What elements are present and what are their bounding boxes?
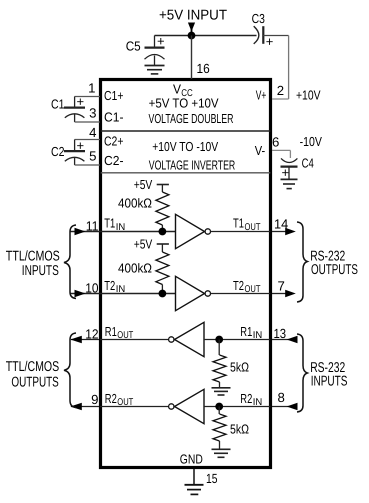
svg-text:R2: R2 — [240, 391, 252, 406]
+5V input arrow — [188, 23, 195, 32]
arrow into pin 10 — [75, 290, 86, 298]
capacitor C1 — [64, 97, 85, 123]
svg-text:1: 1 — [88, 81, 95, 96]
node T2 input — [159, 290, 167, 298]
brace RS-232 inputs — [297, 334, 307, 412]
svg-text:OUT: OUT — [245, 222, 261, 233]
ground below C4 — [281, 179, 298, 188]
wire pin 15 — [193, 469, 195, 485]
svg-text:T1: T1 — [104, 216, 115, 231]
ground below R2 5k — [212, 449, 231, 457]
svg-text:16: 16 — [197, 61, 210, 76]
svg-text:R1: R1 — [240, 324, 252, 339]
svg-text:+: + — [157, 34, 165, 49]
svg-text:C5: C5 — [126, 39, 141, 54]
receiver R1 buffer — [169, 337, 174, 342]
svg-text:15: 15 — [206, 471, 218, 486]
svg-text:5kΩ: 5kΩ — [230, 421, 249, 436]
svg-text:C4: C4 — [302, 155, 314, 170]
wire pin 6 — [272, 149, 290, 151]
svg-text:TTL/CMOS: TTL/CMOS — [6, 359, 60, 375]
svg-text:+5V: +5V — [134, 177, 153, 192]
svg-text:C2+: C2+ — [104, 133, 124, 148]
svg-text:IN: IN — [253, 330, 262, 341]
svg-text:T2: T2 — [104, 278, 115, 293]
svg-text:7: 7 — [278, 278, 285, 293]
node T1 input — [159, 228, 167, 236]
svg-text:400kΩ: 400kΩ — [118, 195, 152, 210]
wire pin 14 out — [272, 231, 288, 233]
svg-text:VOLTAGE INVERTER: VOLTAGE INVERTER — [149, 158, 236, 173]
svg-text:5: 5 — [89, 148, 96, 163]
wire T1 output — [211, 231, 271, 233]
svg-text:V: V — [173, 82, 181, 97]
wire T2 output — [211, 293, 271, 295]
svg-text:+: + — [282, 165, 290, 180]
driver T2 buffer — [176, 276, 205, 310]
svg-text:9: 9 — [91, 392, 98, 407]
svg-text:6: 6 — [272, 134, 279, 149]
wire pin 2 — [272, 98, 289, 100]
svg-text:INPUTS: INPUTS — [311, 373, 348, 389]
ground below R1 5k — [212, 388, 231, 395]
chip U1 (MAX232) box — [101, 80, 271, 468]
svg-text:2: 2 — [277, 83, 284, 98]
svg-text:OUTPUTS: OUTPUTS — [11, 374, 58, 390]
wire top rail left — [155, 35, 192, 37]
svg-text:+5V: +5V — [134, 236, 153, 251]
wire pin 13 — [272, 339, 297, 341]
svg-text:8: 8 — [278, 390, 285, 405]
svg-text:R1: R1 — [105, 324, 117, 339]
capacitor C2 — [64, 140, 85, 166]
svg-text:T1: T1 — [233, 216, 244, 231]
wire C3 to corner — [263, 35, 288, 37]
svg-text:+: + — [266, 34, 274, 49]
wire T2 input row — [71, 293, 176, 295]
resistor 5k (R2) — [218, 407, 220, 415]
svg-text:3: 3 — [89, 106, 96, 121]
svg-text:C1: C1 — [51, 97, 65, 112]
wire top rail right to C3 — [192, 35, 257, 37]
node R2 input — [215, 403, 223, 411]
wire pin 16 — [191, 36, 193, 80]
svg-text:+5V TO +10V: +5V TO +10V — [149, 95, 219, 110]
svg-text:5kΩ: 5kΩ — [230, 359, 249, 374]
capacitor C3 — [254, 26, 264, 44]
node R1 input — [215, 336, 223, 344]
divider between doubler and inverter sections — [101, 130, 271, 132]
divider below inverter section — [101, 172, 271, 174]
svg-text:INPUTS: INPUTS — [22, 263, 59, 279]
resistor 400k (T1) — [156, 192, 169, 225]
svg-text:+10V: +10V — [296, 88, 321, 103]
svg-text:+5V INPUT: +5V INPUT — [159, 8, 227, 24]
resistor 400k (T2) — [156, 252, 169, 285]
svg-text:+: + — [77, 138, 85, 153]
svg-text:C1-: C1- — [104, 109, 124, 124]
driver T1 buffer — [176, 214, 205, 248]
svg-text:4: 4 — [89, 125, 96, 140]
svg-text:C1+: C1+ — [104, 88, 124, 103]
svg-text:V+: V+ — [256, 88, 267, 103]
wire corner down to pin 2 — [288, 36, 290, 100]
wire R1 output row — [71, 339, 99, 341]
receiver R2 buffer — [169, 404, 174, 409]
svg-text:+10V TO -10V: +10V TO -10V — [152, 139, 218, 154]
svg-text:OUT: OUT — [245, 284, 261, 295]
svg-text:+: + — [77, 94, 85, 109]
svg-text:VOLTAGE DOUBLER: VOLTAGE DOUBLER — [149, 111, 234, 126]
svg-text:R2: R2 — [105, 391, 117, 406]
svg-text:C2: C2 — [51, 144, 65, 159]
svg-text:C3: C3 — [252, 11, 265, 26]
wire pin 7 out — [272, 293, 288, 295]
svg-text:T2: T2 — [233, 278, 244, 293]
ground below C5 — [145, 66, 165, 74]
brace RS-232 outputs — [297, 222, 307, 302]
resistor 5k (R1) — [218, 340, 220, 356]
svg-text:OUTPUTS: OUTPUTS — [311, 262, 358, 278]
arrow into pin 11 — [75, 228, 86, 236]
brace TTL/CMOS outputs — [64, 333, 76, 408]
svg-text:-10V: -10V — [300, 134, 323, 149]
svg-text:400kΩ: 400kΩ — [118, 260, 152, 275]
node at +5V input — [188, 32, 196, 40]
brace TTL/CMOS inputs — [64, 225, 76, 299]
wire R1 input — [204, 339, 270, 341]
svg-text:GND: GND — [180, 452, 203, 467]
svg-text:13: 13 — [274, 326, 287, 341]
ground pin 15 — [185, 485, 204, 495]
svg-text:C2-: C2- — [104, 153, 124, 168]
capacitor C4 — [281, 150, 298, 179]
svg-text:IN: IN — [253, 397, 262, 408]
wire R2 output row — [71, 406, 99, 408]
svg-text:TTL/CMOS: TTL/CMOS — [6, 248, 60, 264]
wire pin 1 — [75, 96, 100, 98]
wire T1 input row — [71, 231, 176, 233]
wire R2 input — [204, 406, 270, 408]
wire pin 3 — [75, 121, 100, 123]
capacitor C5 — [145, 36, 165, 66]
wire pin 5 — [75, 164, 100, 166]
wire pin 4 — [75, 139, 100, 141]
wire pin 8 — [272, 406, 297, 408]
svg-text:V-: V- — [255, 143, 266, 158]
